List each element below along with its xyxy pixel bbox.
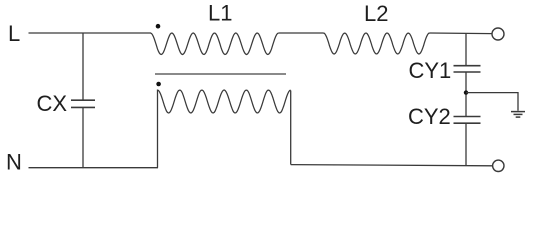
wire: junction to ground lead [466, 93, 518, 111]
svg-text:L1: L1 [208, 1, 232, 26]
wire: choke bottom winding left lead [157, 90, 159, 168]
wire: CY2 bottom to neutral line [465, 123, 467, 165]
wire: L terminal to L1 left end [29, 32, 152, 34]
output terminal (line side) [492, 28, 504, 40]
output terminal (neutral side) [493, 160, 504, 171]
wire: choke bottom winding right lead [290, 91, 292, 165]
capacitor CX [71, 33, 95, 168]
wire: L1 to L2 [279, 32, 324, 34]
svg-text:CY2: CY2 [408, 104, 451, 129]
svg-text:L2: L2 [364, 1, 388, 26]
wire: top line junction down to CY1 [465, 33, 467, 66]
polarity dot of bottom winding [156, 82, 161, 87]
polarity dot of L1 winding [156, 24, 161, 29]
wire: choke right lead to neutral output terminal [291, 165, 493, 166]
svg-text:L: L [8, 21, 20, 46]
capacitor CY2 [454, 117, 481, 124]
wire: N terminal to choke bottom-left lead [29, 167, 159, 169]
svg-text:CY1: CY1 [409, 58, 452, 83]
wire: L2 to line output terminal [430, 32, 493, 35]
svg-text:CX: CX [37, 91, 68, 116]
capacitor CY1 [454, 66, 481, 72]
inductor L2 [324, 33, 430, 54]
choke core bar [155, 73, 286, 75]
wire: CY1 bottom to CY2 top [465, 72, 467, 116]
inductor: bottom winding of common-mode choke [158, 90, 291, 113]
svg-text:N: N [6, 150, 22, 175]
ground [511, 112, 525, 118]
node: CY midpoint junction dot [464, 90, 468, 94]
inductor L1 (top winding of common-mode choke) [151, 33, 279, 55]
